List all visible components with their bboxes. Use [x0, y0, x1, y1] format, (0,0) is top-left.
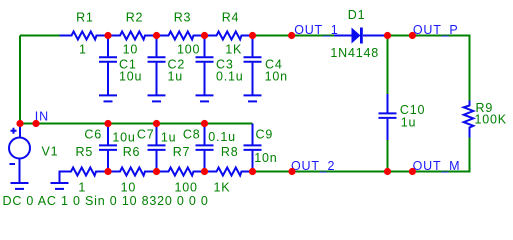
node OUT_1 dot — [288, 32, 295, 39]
svg-text:R6: R6 — [123, 145, 141, 159]
resistor R8 — [205, 168, 253, 176]
capacitor C9 — [244, 124, 262, 172]
junction C7 top — [153, 120, 160, 127]
ground left of R5 — [51, 183, 69, 189]
node OUT_2 dot — [288, 168, 295, 175]
resistor R9 — [464, 101, 474, 138]
svg-text:1: 1 — [78, 181, 86, 195]
capacitor C7 — [148, 124, 166, 172]
svg-text:1u: 1u — [401, 116, 417, 130]
svg-text:0.1u: 0.1u — [216, 70, 244, 84]
svg-text:DC 0 AC 1 0 Sin 0 10 8320 0 0: DC 0 AC 1 0 Sin 0 10 8320 0 0 0 — [3, 194, 209, 208]
svg-text:10n: 10n — [265, 70, 288, 84]
junction R8/C9 — [249, 168, 256, 175]
resistor R6 — [108, 168, 157, 176]
resistor R7 — [157, 168, 205, 176]
junction R4/C4 — [249, 32, 256, 39]
junction R7/R8/C8 — [201, 168, 208, 175]
svg-text:C7: C7 — [137, 128, 155, 142]
svg-text:1K: 1K — [225, 43, 242, 57]
capacitor C10 — [379, 94, 397, 140]
ground below V1 — [11, 183, 29, 189]
svg-text:V1: V1 — [42, 145, 59, 159]
svg-text:1: 1 — [79, 43, 87, 57]
wire C10 top stub — [387, 36, 389, 95]
resistor R1 — [60, 32, 108, 40]
svg-text:C9: C9 — [256, 128, 274, 142]
svg-text:1u: 1u — [168, 70, 184, 84]
ground below C4 — [244, 95, 262, 101]
svg-text:1u: 1u — [161, 131, 177, 145]
svg-text:1K: 1K — [213, 181, 230, 195]
node IN dot — [32, 120, 39, 127]
svg-text:R2: R2 — [126, 11, 144, 25]
wire top rail C4 to diode — [253, 35, 335, 37]
wire C10 bottom stub — [387, 140, 389, 172]
svg-text:OUT_2: OUT_2 — [291, 159, 335, 173]
svg-text:OUT_M: OUT_M — [413, 159, 461, 173]
wire bottom rail C9 to right — [253, 171, 413, 173]
wire top-left vertical — [19, 36, 21, 124]
junction V1/left wire — [16, 120, 23, 127]
resistor R4 — [205, 32, 253, 40]
wire top rail diode to right corner — [388, 36, 470, 101]
junction C6 top — [104, 120, 111, 127]
ground below C1 — [99, 95, 117, 101]
svg-text:100: 100 — [174, 181, 197, 195]
capacitor C3 — [196, 36, 214, 95]
junction R1/R2/C1 — [104, 32, 111, 39]
node OUT_P dot — [409, 32, 416, 39]
svg-text:10u: 10u — [112, 131, 135, 145]
svg-text:D1: D1 — [348, 8, 366, 22]
diode D1 — [334, 28, 388, 44]
capacitor C8 — [196, 124, 214, 172]
capacitor C4 — [244, 36, 262, 95]
svg-text:R4: R4 — [222, 11, 240, 25]
capacitor C2 — [148, 36, 166, 95]
wire top rail left — [20, 35, 60, 37]
ground below C3 — [196, 95, 214, 101]
svg-text:R5: R5 — [76, 145, 94, 159]
svg-text:R3: R3 — [174, 11, 192, 25]
resistor R5 — [60, 168, 109, 184]
junction D1/C10 — [384, 32, 391, 39]
svg-text:C6: C6 — [84, 128, 102, 142]
svg-text:OUT_1: OUT_1 — [294, 23, 338, 37]
svg-text:R1: R1 — [76, 11, 94, 25]
junction C10 bottom — [384, 168, 391, 175]
svg-text:10n: 10n — [254, 151, 277, 165]
node OUT_M dot — [409, 168, 416, 175]
svg-text:10u: 10u — [119, 70, 142, 84]
svg-text:R8: R8 — [221, 145, 239, 159]
wire R9 bottom — [412, 138, 469, 172]
junction C8 top — [201, 120, 208, 127]
svg-text:100K: 100K — [475, 113, 507, 127]
svg-text:10: 10 — [121, 181, 137, 195]
resistor R2 — [108, 32, 157, 40]
svg-text:OUT_P: OUT_P — [413, 23, 459, 37]
capacitor C1 — [99, 36, 117, 95]
resistor R3 — [157, 32, 205, 40]
source V1 — [9, 124, 30, 184]
node IN rail — [20, 123, 253, 125]
ground below C2 — [148, 95, 166, 101]
junction R5/R6/C6 — [104, 168, 111, 175]
svg-text:10: 10 — [123, 43, 139, 57]
svg-text:100: 100 — [177, 43, 200, 57]
junction R6/R7/C7 — [153, 168, 160, 175]
capacitor C6 — [99, 124, 117, 172]
svg-text:C8: C8 — [183, 128, 201, 142]
svg-text:0.1u: 0.1u — [208, 130, 236, 144]
svg-text:1N4148: 1N4148 — [330, 46, 379, 60]
junction R3/R4/C3 — [201, 32, 208, 39]
junction R2/R3/C2 — [153, 32, 160, 39]
svg-text:R7: R7 — [173, 145, 191, 159]
